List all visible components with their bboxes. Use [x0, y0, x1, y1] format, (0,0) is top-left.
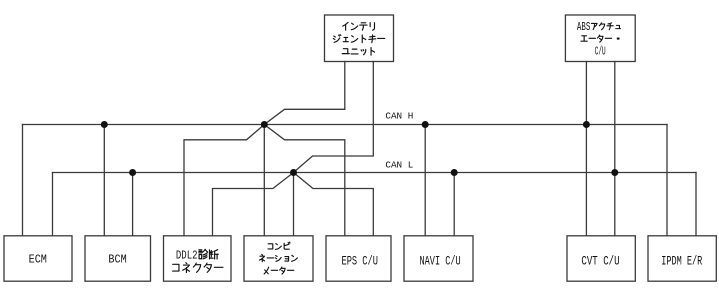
svg-text:DDL2: DDL2: [176, 248, 198, 262]
svg-text:IPDM E/R: IPDM E/R: [661, 255, 702, 269]
junction dot NAVI CAN L: [451, 169, 458, 176]
junction dot NAVI CAN H: [422, 121, 429, 128]
wire CAN L bus: [53, 172, 697, 174]
box intelligent key unit: [325, 15, 394, 62]
junction dot ABS/CVT CAN H: [583, 121, 590, 128]
wire DDL2 CAN H lead: [184, 125, 264, 236]
junction dot BCM CAN L: [129, 169, 136, 176]
junction dot central CAN H: [261, 121, 268, 128]
box DDL2 diagnostic connector: [164, 236, 232, 281]
text combination meter line1 (konbi): [268, 242, 290, 249]
wire combination meter CAN L lead: [293, 173, 295, 236]
text intelligent key line2 (jentoki-): [333, 34, 384, 42]
wire BCM CAN H lead: [103, 125, 105, 236]
text ABS line1 katakana (akuchu): [591, 23, 620, 30]
junction dot central CAN L: [290, 169, 297, 176]
wire ABS + CVT CAN L lead: [614, 62, 616, 236]
text intelligent key line3 (yunitto): [342, 48, 374, 56]
text DDL2 line2 (konekuta-): [173, 263, 223, 273]
svg-text:ECM: ECM: [29, 254, 47, 267]
svg-text:EPS C/U: EPS C/U: [342, 255, 378, 269]
svg-text:ABS: ABS: [577, 21, 590, 34]
wire NAVI CAN H lead: [424, 125, 426, 236]
wire EPS CAN L lead: [294, 173, 374, 236]
wire ECM CAN H lead: [22, 125, 24, 236]
box ABS actuator C/U: [565, 15, 635, 62]
text combination meter line2 (ne-shon): [259, 254, 297, 261]
svg-text:NAVI C/U: NAVI C/U: [420, 255, 461, 269]
junction dot ABS/CVT CAN L: [611, 169, 618, 176]
wire IPDM CAN L lead: [695, 173, 697, 236]
wire IPDM CAN H lead: [666, 125, 668, 236]
wire BCM CAN L lead: [132, 173, 134, 236]
box EPS C/U: [326, 236, 391, 281]
box ECM: [4, 236, 72, 281]
wire intelligent key CAN H lead: [264, 62, 345, 125]
text combination meter line3 (me-ta-): [264, 267, 294, 274]
wire intelligent key CAN L lead: [294, 62, 374, 173]
wire EPS CAN H lead: [264, 125, 345, 236]
box CVT C/U: [567, 236, 635, 281]
box IPDM E/R: [648, 236, 716, 281]
wire combination meter CAN H lead: [263, 125, 265, 236]
wire ABS + CVT CAN H lead: [585, 62, 587, 236]
box BCM: [85, 236, 151, 281]
junction dot BCM CAN H: [101, 121, 108, 128]
wire NAVI CAN L lead: [453, 173, 455, 236]
svg-text:CAN L: CAN L: [385, 160, 413, 170]
box NAVI C/U: [404, 236, 473, 281]
wire CAN H bus: [23, 124, 668, 126]
svg-text:C/U: C/U: [595, 46, 606, 59]
text DDL2 kanji (shindan): [199, 249, 218, 259]
wire ECM CAN L lead: [52, 173, 54, 236]
svg-text:CAN H: CAN H: [385, 112, 413, 122]
wire DDL2 CAN L lead: [213, 173, 294, 236]
box combination meter: [244, 236, 313, 281]
text intelligent key line1 (interi): [343, 22, 375, 30]
text ABS line2 (e-ta-.): [581, 35, 619, 42]
svg-text:CVT C/U: CVT C/U: [581, 255, 619, 269]
svg-text:BCM: BCM: [108, 254, 126, 267]
